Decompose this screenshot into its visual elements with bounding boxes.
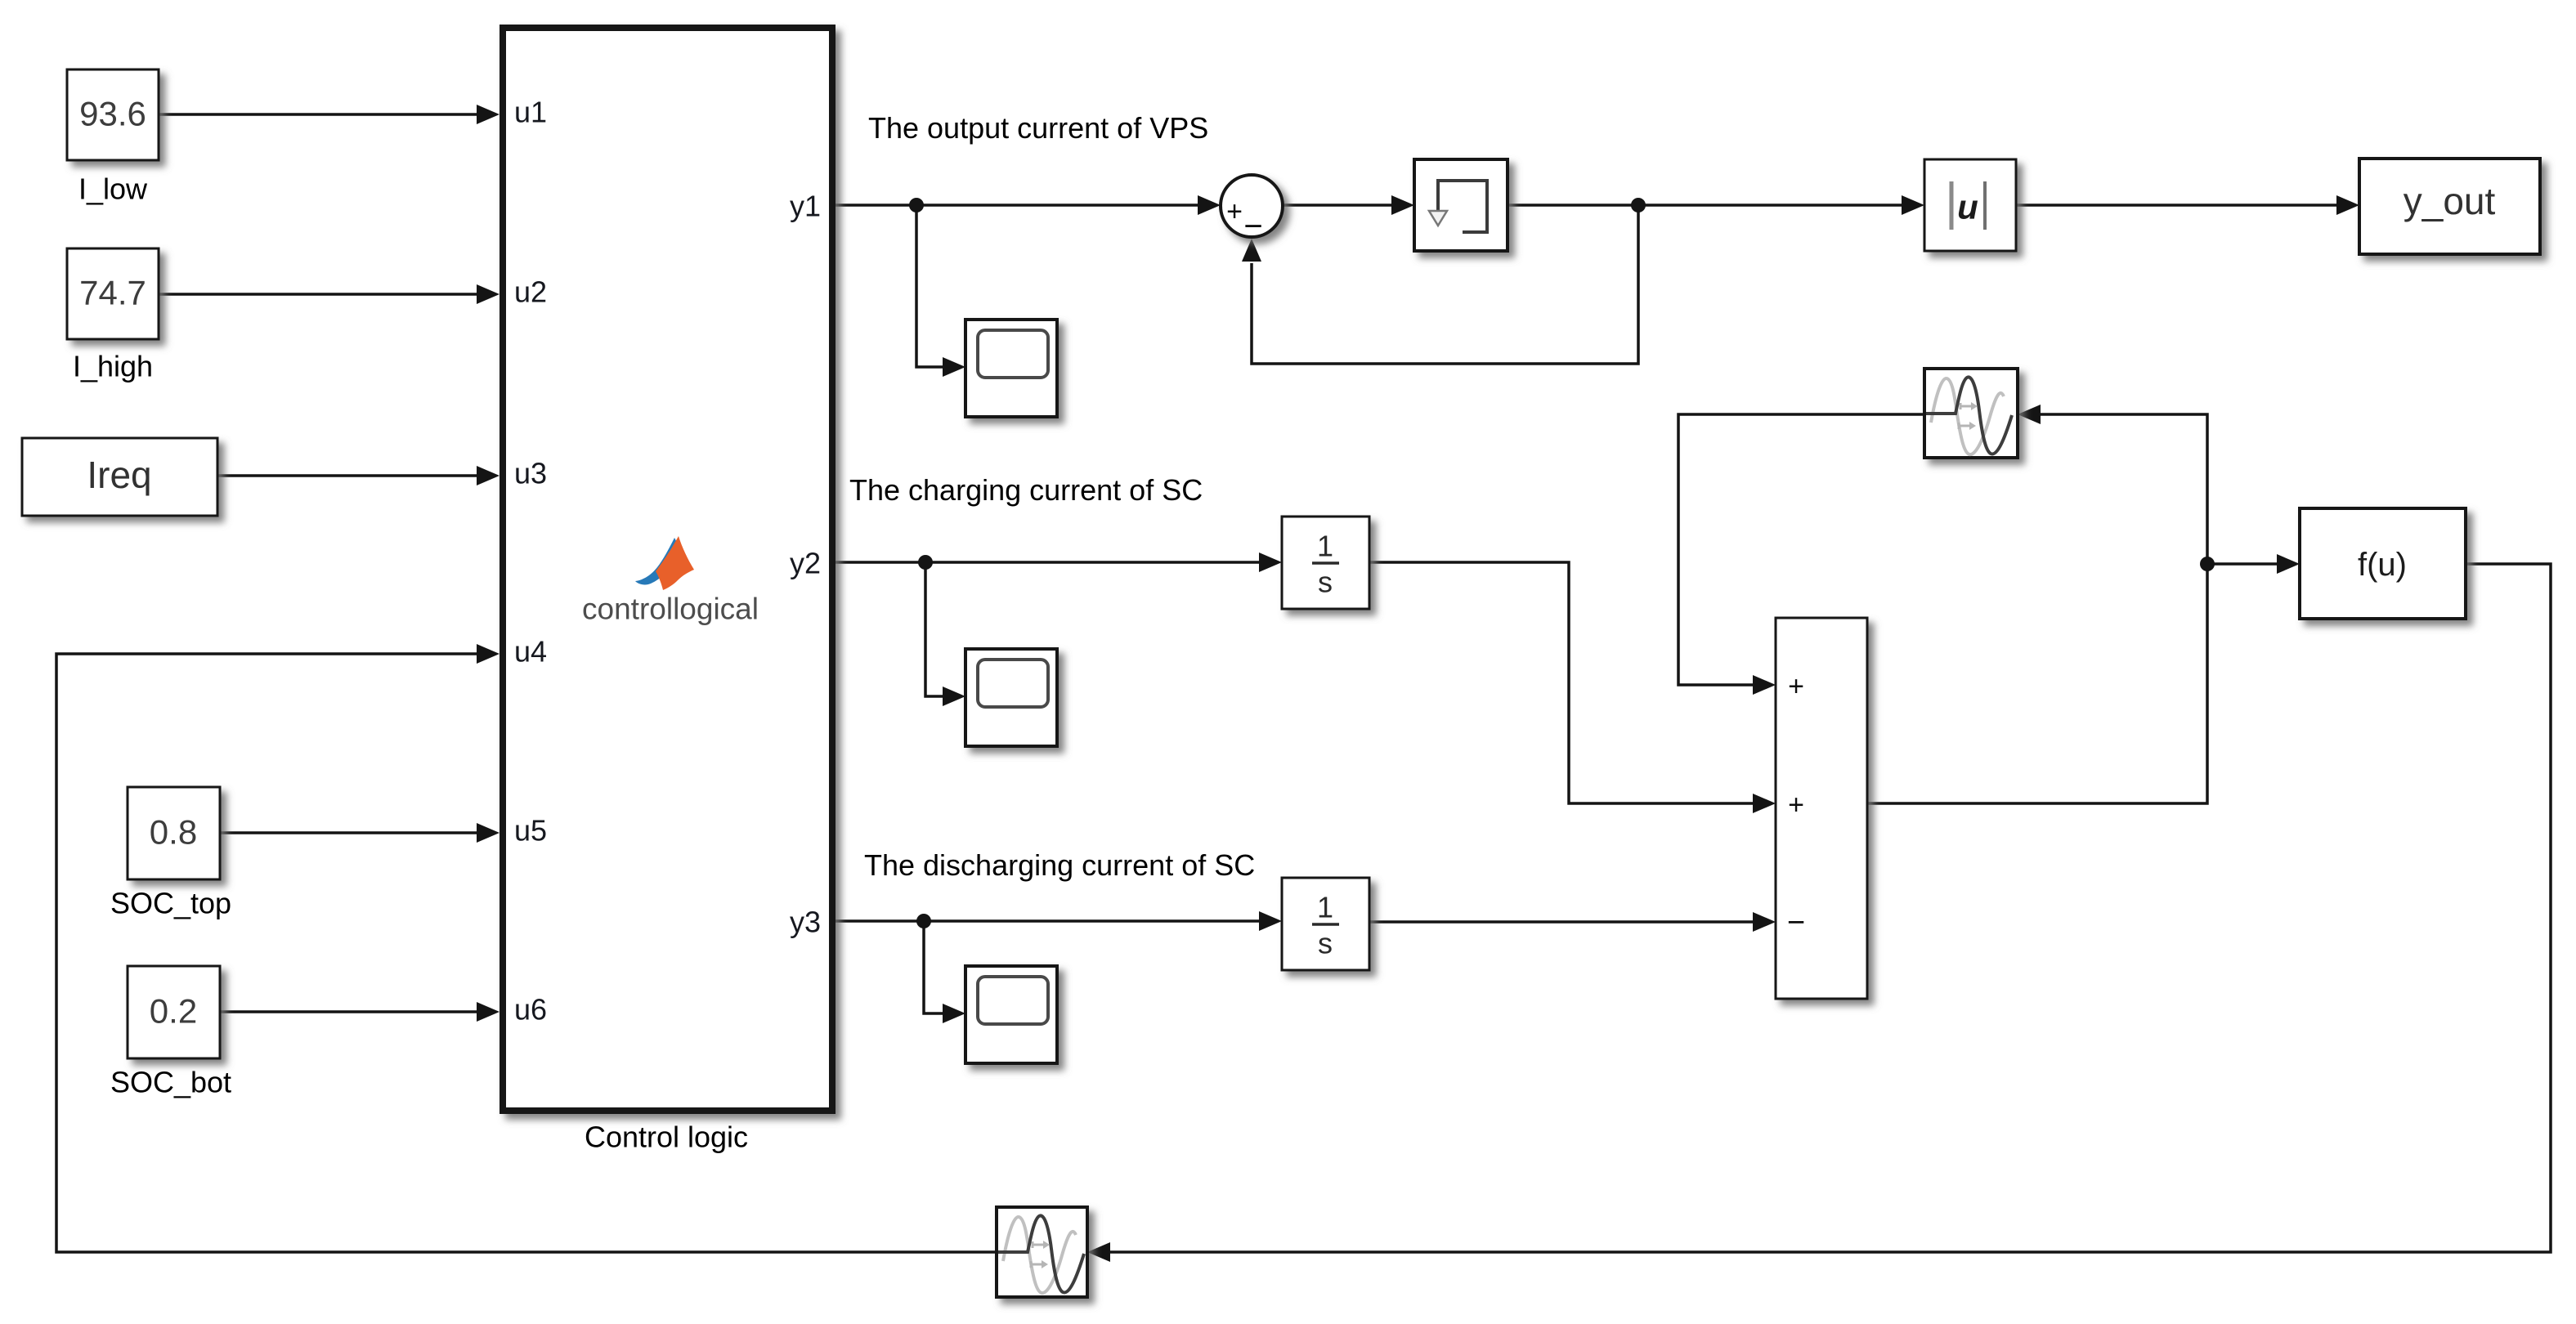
arrow into integrator2 xyxy=(1259,911,1282,931)
wire fu out to delay bottom xyxy=(1106,564,2551,1252)
arrow into fu xyxy=(2277,554,2300,574)
svg-text:93.6: 93.6 xyxy=(79,95,146,133)
svg-text:1: 1 xyxy=(1317,530,1333,563)
arrow into integrator1 xyxy=(1259,552,1282,572)
transport delay block top xyxy=(1924,369,2018,458)
arrow into sum circle bottom xyxy=(1242,239,1261,262)
wire y3 branch to scope3 xyxy=(924,921,947,1013)
svg-text:+: + xyxy=(1226,196,1243,227)
junction after loop block xyxy=(1631,198,1646,212)
svg-text:y_out: y_out xyxy=(2404,180,2496,222)
svg-text:y2: y2 xyxy=(790,547,821,580)
scope Scope1 xyxy=(965,320,1057,417)
MATLAB logo orange membrane xyxy=(656,536,694,590)
svg-text:The output current of VPS: The output current of VPS xyxy=(868,111,1208,145)
arrow into sum rect plus2 xyxy=(1753,794,1776,813)
arrow into sum circle left xyxy=(1198,195,1221,215)
svg-text:−: − xyxy=(1243,208,1262,244)
svg-text:u3: u3 xyxy=(514,457,547,490)
arrow into scope3 xyxy=(943,1004,965,1023)
wire sum rect out to delay top xyxy=(1867,414,2207,803)
wire loop block to abs xyxy=(1508,204,1906,207)
arrow into u6 xyxy=(477,1002,500,1022)
ARROWHEADS xyxy=(477,105,2359,1262)
arrow into loop block xyxy=(1391,195,1414,215)
arrow into u1 xyxy=(477,105,500,124)
wire branch to fu xyxy=(2207,562,2281,566)
junction on y1 xyxy=(909,198,924,212)
wire delay top out to sum rect plus1 xyxy=(1678,414,1924,685)
arrow into u5 xyxy=(477,823,500,843)
wire y1 to sum xyxy=(836,204,1202,207)
wire y3 to integrator2 xyxy=(836,919,1261,923)
wire integrator1 to sum rect plus2 xyxy=(1369,562,1757,803)
wire feedback from junction to sum bottom xyxy=(1252,205,1638,364)
svg-text:s: s xyxy=(1318,927,1333,960)
arrow into scope1 xyxy=(943,357,965,377)
svg-text:u4: u4 xyxy=(514,635,547,669)
wire y2 to integrator1 xyxy=(836,561,1261,564)
wire abs to y_out xyxy=(2016,204,2341,207)
svg-text:The charging current of SC: The charging current of SC xyxy=(849,473,1203,507)
svg-text:1: 1 xyxy=(1317,891,1333,924)
svg-text:Control logic: Control logic xyxy=(585,1120,748,1154)
wire Ireq to u3 xyxy=(217,474,482,477)
junction on y3 xyxy=(916,914,931,928)
svg-text:s: s xyxy=(1318,566,1333,599)
integrator 1/s block 2 xyxy=(1282,878,1369,970)
arrow into delay bottom (pointing left) xyxy=(1087,1242,1110,1262)
constant I_low 93.6 xyxy=(67,69,159,160)
svg-text:−: − xyxy=(1787,906,1805,940)
fcn block f(u) xyxy=(2300,508,2466,619)
svg-text:u2: u2 xyxy=(514,275,547,309)
outport y_out xyxy=(2359,159,2540,254)
svg-text:controllogical: controllogical xyxy=(582,593,759,626)
wire y1 branch to scope1 xyxy=(916,205,947,367)
scope Scope3 xyxy=(965,966,1057,1063)
wire y2 branch to scope2 xyxy=(925,562,947,696)
wire feedback into u4 xyxy=(56,654,997,1252)
svg-text:The discharging current of SC: The discharging current of SC xyxy=(864,848,1255,882)
subsystem Control logic xyxy=(503,28,832,1111)
svg-text:0.2: 0.2 xyxy=(150,992,197,1031)
svg-text:I_high: I_high xyxy=(73,350,153,383)
svg-text:SOC_top: SOC_top xyxy=(110,887,231,920)
arrow into sum rect plus1 xyxy=(1753,675,1776,695)
arrow into abs block xyxy=(1902,195,1924,215)
junction on fu input xyxy=(2200,557,2215,571)
wire I_high to u2 xyxy=(159,293,482,296)
svg-text:+: + xyxy=(1788,671,1804,702)
svg-text:u6: u6 xyxy=(514,993,547,1027)
constant SOC_top 0.8 xyxy=(128,787,220,879)
arrow into delay top (pointing left) xyxy=(2018,405,2041,424)
svg-text:f(u): f(u) xyxy=(2358,547,2407,583)
wire sum to loop block xyxy=(1283,204,1396,207)
constant I_high 74.7 xyxy=(67,248,159,339)
svg-text:I_low: I_low xyxy=(78,172,148,206)
MATLAB logo blue wing xyxy=(635,538,678,584)
wire integrator2 to sum rect minus xyxy=(1369,920,1757,924)
sum rectangle block xyxy=(1776,618,1867,999)
svg-text:0.8: 0.8 xyxy=(150,813,197,852)
arrow into sum rect minus xyxy=(1753,912,1776,932)
svg-text:+: + xyxy=(1788,789,1804,821)
arrow into scope2 xyxy=(943,687,965,706)
wire SOC_bot to u6 xyxy=(220,1010,482,1013)
sum circle xyxy=(1221,175,1283,244)
svg-text:u1: u1 xyxy=(514,96,547,129)
scope Scope2 xyxy=(965,649,1057,746)
arrow into y_out xyxy=(2336,195,2359,215)
constant Ireq xyxy=(22,438,217,516)
svg-text:y1: y1 xyxy=(790,190,821,223)
wire I_low to u1 xyxy=(159,113,482,116)
svg-text:y3: y3 xyxy=(790,906,821,939)
transport delay block bottom xyxy=(997,1207,1087,1297)
svg-text:u: u xyxy=(1957,188,1978,226)
constant SOC_bot 0.2 xyxy=(128,966,220,1058)
integrator 1/s block 1 xyxy=(1282,517,1369,609)
arrow into u3 xyxy=(477,466,500,485)
arrow into u4 xyxy=(477,644,500,664)
svg-text:74.7: 74.7 xyxy=(79,274,146,312)
svg-text:u5: u5 xyxy=(514,814,547,848)
junction on y2 xyxy=(918,555,933,570)
loop icon block (unit delay style) xyxy=(1414,159,1508,251)
svg-text:Ireq: Ireq xyxy=(87,454,151,496)
wire SOC_top to u5 xyxy=(220,831,482,834)
abs block |u| xyxy=(1924,159,2016,251)
arrow into u2 xyxy=(477,284,500,304)
svg-text:SOC_bot: SOC_bot xyxy=(110,1066,231,1099)
